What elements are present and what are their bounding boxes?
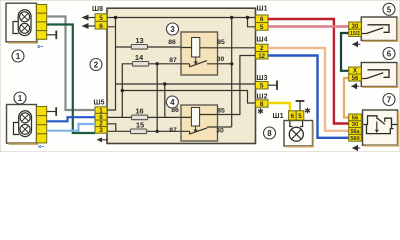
footnote mark top lamp	[37, 44, 44, 51]
wire teal item5 to item6	[341, 33, 349, 71]
svg-text:15: 15	[136, 121, 144, 130]
wire white/gray top lamp high beam	[47, 17, 95, 111]
wire orange item6-56 to item7-56	[344, 78, 349, 118]
relay K4 low beam (item 4)	[169, 105, 225, 141]
fuse F15	[131, 121, 147, 134]
svg-text:12: 12	[258, 54, 265, 60]
headlamp top connector	[37, 5, 47, 40]
svg-text:7: 7	[387, 96, 392, 105]
footnote mark near Ш2	[257, 107, 264, 116]
label item 6	[383, 48, 395, 60]
svg-text:5: 5	[260, 83, 264, 90]
wire blue Ш4-12 to item7 pin56b	[268, 56, 349, 138]
footnote mark bottom lamp	[38, 144, 45, 151]
svg-text:3: 3	[99, 127, 103, 134]
svg-text:5: 5	[298, 113, 302, 120]
svg-text:5: 5	[99, 15, 103, 22]
wire: relay3 pin85 to Ш4-2	[218, 47, 256, 49]
label item 8	[264, 127, 276, 139]
indicator lamp item 8	[284, 121, 313, 147]
item5 connector	[349, 22, 362, 37]
label item 4	[166, 96, 178, 108]
headlamp left (item 1 bottom)	[7, 105, 38, 144]
svg-text:6: 6	[99, 23, 103, 30]
label item 2	[90, 59, 102, 71]
svg-text:3: 3	[170, 25, 175, 34]
svg-text:2: 2	[94, 61, 99, 70]
svg-text:5: 5	[260, 24, 264, 31]
svg-text:6: 6	[291, 113, 295, 120]
switch item 6 (rear fog)	[361, 63, 397, 88]
fuse F16	[132, 107, 148, 120]
svg-text:Ш1: Ш1	[273, 113, 284, 120]
svg-text:✱: ✱	[257, 107, 264, 116]
ground at Ш3-5	[268, 81, 277, 90]
connector Ш8	[92, 6, 107, 30]
wire: relay4 pin30 to +12 column	[218, 126, 232, 128]
ground top lamp	[47, 31, 57, 40]
ground under item7	[352, 145, 361, 151]
svg-text:85: 85	[217, 108, 225, 115]
mounting block body (item 2)	[107, 8, 256, 143]
node: top +12 rail	[107, 18, 256, 111]
svg-text:30: 30	[217, 56, 225, 63]
svg-text:30: 30	[352, 122, 358, 128]
switch item 5 (exterior lights)	[361, 17, 397, 41]
fuse F13	[131, 36, 147, 49]
fuse F14	[133, 53, 149, 66]
ground bottom lamp	[47, 107, 57, 116]
svg-text:87: 87	[169, 127, 177, 134]
svg-text:X: X	[353, 69, 357, 75]
ground under item5	[352, 41, 361, 47]
wire: relay3 pin30 stub	[218, 63, 232, 65]
wire: vertical link fuse14 to fuse15	[156, 64, 158, 132]
svg-text:Ш1: Ш1	[257, 6, 268, 13]
svg-text:85: 85	[217, 39, 225, 46]
arrow to left headlamp pin6	[82, 23, 96, 29]
svg-text:16: 16	[135, 107, 143, 116]
item7 connector	[349, 114, 362, 142]
junction relay3-30	[230, 62, 233, 65]
wire: fuse15 line to relay4 pin 87	[107, 124, 181, 132]
connector Ш3	[256, 75, 269, 90]
headlamp left (item 1 top)	[6, 3, 37, 42]
svg-text:56а: 56а	[351, 129, 361, 135]
svg-text:15/2: 15/2	[350, 31, 360, 37]
relay K5 high beam (item 3)	[168, 32, 225, 75]
headlamp bottom connector	[37, 107, 47, 143]
svg-text:87: 87	[169, 57, 177, 64]
wire: cross link fuses to Ш2	[122, 91, 255, 104]
wire: fuse16 line to relay4 pin 86	[107, 116, 181, 118]
junction fuse14 column	[121, 62, 159, 92]
ground above item8 pin5	[296, 101, 305, 111]
svg-text:14: 14	[135, 53, 144, 62]
wire: Ш4-12 to relay4 pin85	[218, 56, 256, 115]
label item 3	[167, 23, 179, 35]
item6 connector	[349, 67, 362, 82]
item8 connector	[273, 111, 304, 120]
svg-text:4: 4	[170, 98, 175, 107]
arrow to left headlamp pin5	[82, 15, 96, 21]
wire light blue bottom lamp high beam	[47, 124, 95, 131]
svg-text:Ш4: Ш4	[257, 37, 268, 44]
svg-text:8: 8	[267, 129, 272, 138]
svg-text:13: 13	[135, 36, 143, 45]
svg-text:5: 5	[387, 5, 392, 14]
svg-text:6: 6	[260, 16, 264, 23]
svg-text:56: 56	[352, 115, 359, 121]
ground under item6	[351, 83, 360, 89]
svg-text:56: 56	[352, 76, 359, 82]
svg-text:»-: »-	[38, 144, 45, 151]
wire: +12 vertical to relay contacts 30	[231, 18, 233, 128]
svg-text:86: 86	[168, 39, 176, 46]
svg-text:✱: ✱	[304, 107, 311, 116]
wire: fuse 13 line to relay3 pin 86	[116, 46, 182, 48]
svg-text:56б: 56б	[350, 135, 360, 142]
label item 5	[383, 3, 395, 15]
label item 7	[383, 94, 395, 106]
connector Ш5	[94, 100, 107, 135]
svg-text:»-: »-	[37, 44, 44, 51]
node: ground rail to Ш3-5	[116, 84, 256, 117]
svg-text:2: 2	[260, 45, 264, 52]
svg-text:30: 30	[352, 24, 359, 30]
svg-text:Ш5: Ш5	[94, 100, 105, 107]
wire dark red Ш1-6 to item7 pin30	[268, 19, 349, 124]
svg-text:6: 6	[387, 50, 392, 59]
junction dots on top rail	[114, 16, 249, 19]
svg-text:Ш3: Ш3	[257, 75, 268, 82]
svg-text:Ш8: Ш8	[92, 6, 103, 13]
wire yellow Ш2-8 to indicator lamp	[268, 103, 290, 112]
svg-text:30: 30	[216, 128, 224, 135]
connector Ш4	[256, 37, 269, 60]
arrow below Ш5	[97, 137, 109, 142]
label item 1 bottom	[14, 92, 26, 104]
label item 1 top	[12, 50, 24, 62]
connector Ш1 top	[256, 6, 269, 31]
wire blue bottom lamp low beam	[47, 117, 95, 121]
wire rose Ш1-5 to item5 pin30	[268, 25, 349, 27]
footnote mark right of item8	[304, 107, 311, 116]
switch item 7 (headlight switch)	[363, 110, 399, 146]
svg-text:1: 1	[16, 52, 21, 61]
wire salmon Ш4-2 to item7 pin56a	[268, 48, 349, 131]
svg-text:1: 1	[18, 94, 23, 103]
wire dark green top lamp low beam	[47, 25, 95, 134]
wire: fuse 14 line relay3 pin 87	[122, 64, 181, 118]
connector Ш2	[256, 94, 269, 108]
